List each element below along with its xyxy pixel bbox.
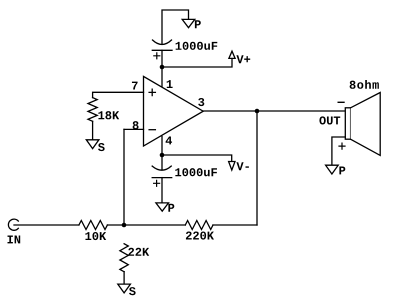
wire node to V+ arrow <box>162 57 232 67</box>
speaker plus mark <box>339 143 345 149</box>
label 10K <box>85 232 106 240</box>
power arrow V- <box>229 162 235 171</box>
wire 22K to S ground <box>123 272 125 284</box>
wire output pin 3 to speaker <box>203 110 345 112</box>
speaker LS1 cone <box>351 93 381 156</box>
node V+ junction <box>160 65 165 70</box>
resistor R5 22K <box>120 244 128 272</box>
wire IN to 10K <box>14 224 79 226</box>
label V- <box>236 162 248 170</box>
capacitor C1 1000uF top: curved plate <box>153 40 172 45</box>
ground S below 22K <box>118 284 131 293</box>
label 18K <box>98 111 119 119</box>
capacitor C2 flat plate <box>152 177 172 179</box>
label S ground R5 <box>129 287 136 295</box>
wire 10K to input node <box>107 224 124 226</box>
label 220K <box>186 231 214 239</box>
wire pin 7 <box>93 92 144 97</box>
label P cap bottom <box>168 204 174 212</box>
wire node to V- arrow <box>162 155 232 165</box>
wire pin 8 <box>124 128 144 130</box>
node input junction <box>122 223 127 228</box>
pin 3 label <box>198 98 204 106</box>
resistor R2 18K <box>88 98 97 122</box>
capacitor C2 1000uF bottom: curved plate <box>152 166 171 170</box>
wire C2 to P ground <box>161 178 163 203</box>
label 8ohm <box>350 80 379 89</box>
speaker minus mark <box>338 101 344 103</box>
wire speaker plus to P ground <box>332 137 345 165</box>
capacitor C1 plus mark <box>154 53 160 59</box>
power arrow V+ <box>229 51 235 58</box>
op-amp minus input mark <box>149 129 155 131</box>
label IN <box>8 235 21 243</box>
node V- junction <box>160 153 165 158</box>
wire pin 4 to V- node <box>161 136 163 155</box>
wire feedback vertical <box>256 111 258 225</box>
node output junction <box>255 109 260 114</box>
wire C1 to V+ node <box>161 50 163 67</box>
wire pin 8 down to input node <box>123 129 125 225</box>
speaker LS1 driver box <box>345 108 350 139</box>
label OUT <box>319 116 340 124</box>
ground P speaker <box>326 165 339 174</box>
wire feedback bottom <box>213 224 257 226</box>
label 22K <box>128 248 149 256</box>
wire input node to 220K <box>124 224 185 226</box>
label V+ <box>236 55 250 63</box>
label 1000uF bottom <box>175 168 217 176</box>
pin 1 label <box>167 80 173 88</box>
label P speaker <box>339 166 345 174</box>
op-amp U1 body <box>144 76 204 146</box>
ground P top rail <box>182 19 195 27</box>
wire 18K to S ground <box>92 121 94 140</box>
capacitor C1 flat plate <box>152 49 172 51</box>
label 1000uF top <box>176 42 218 50</box>
capacitor C2 plus mark <box>154 180 160 186</box>
wire top rail from C1 to P ground <box>162 10 189 44</box>
pin 8 label <box>133 121 139 129</box>
ground P below C2 <box>156 203 169 211</box>
connector IN <box>8 219 18 230</box>
ground S below 18K <box>86 140 99 149</box>
label P top <box>195 20 201 28</box>
wire node to pin 1 <box>161 67 163 88</box>
resistor R1 10K <box>79 221 108 230</box>
op-amp plus input mark <box>149 89 155 95</box>
label S ground R2 <box>98 143 105 151</box>
resistor R4 220K <box>185 221 213 230</box>
pin 7 label <box>132 82 138 90</box>
pin 4 label <box>166 136 172 144</box>
capacitor C2 wire from node <box>161 155 163 170</box>
